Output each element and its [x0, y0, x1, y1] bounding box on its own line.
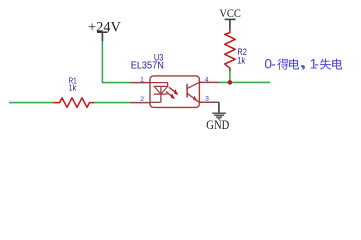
wire pin3 to ground — [218, 102, 220, 113]
junction node — [228, 80, 233, 85]
light arrow 2 — [166, 92, 174, 99]
transistor collector — [187, 82, 199, 88]
LED cathode bar — [154, 93, 168, 95]
ground GND symbol — [212, 112, 226, 114]
transistor emitter — [187, 93, 199, 102]
LED triangle — [154, 86, 167, 94]
transistor base bar — [186, 84, 188, 98]
pin 2 — [131, 102, 150, 104]
pin 3 — [199, 101, 219, 103]
wire left rail — [9, 102, 53, 104]
resistor R1 — [53, 98, 94, 107]
optocoupler U3 body — [150, 76, 199, 108]
svg-text:3: 3 — [205, 96, 209, 103]
wire R2 to node — [229, 71, 231, 82]
LED cathode to pin2 — [150, 101, 161, 103]
svg-text:GND: GND — [206, 118, 229, 132]
LED anode lead — [150, 82, 168, 84]
svg-text:1k: 1k — [237, 56, 245, 67]
svg-text:4: 4 — [205, 76, 209, 83]
LED center lead — [160, 86, 162, 102]
svg-text:EL357N: EL357N — [131, 61, 164, 72]
light arrow 1 — [169, 87, 178, 94]
wire +24V to pin1 — [102, 41, 130, 83]
wire node right — [219, 81, 270, 83]
pin 4 — [199, 81, 219, 83]
resistor R2 — [225, 28, 236, 71]
wire R1 to pin2 — [94, 102, 131, 104]
svg-text:VCC: VCC — [219, 6, 241, 20]
svg-text:1k: 1k — [69, 82, 77, 92]
svg-text:1: 1 — [140, 76, 144, 83]
pin 1 — [131, 82, 150, 84]
svg-text:2: 2 — [140, 96, 144, 103]
svg-text:+24V: +24V — [88, 20, 122, 36]
